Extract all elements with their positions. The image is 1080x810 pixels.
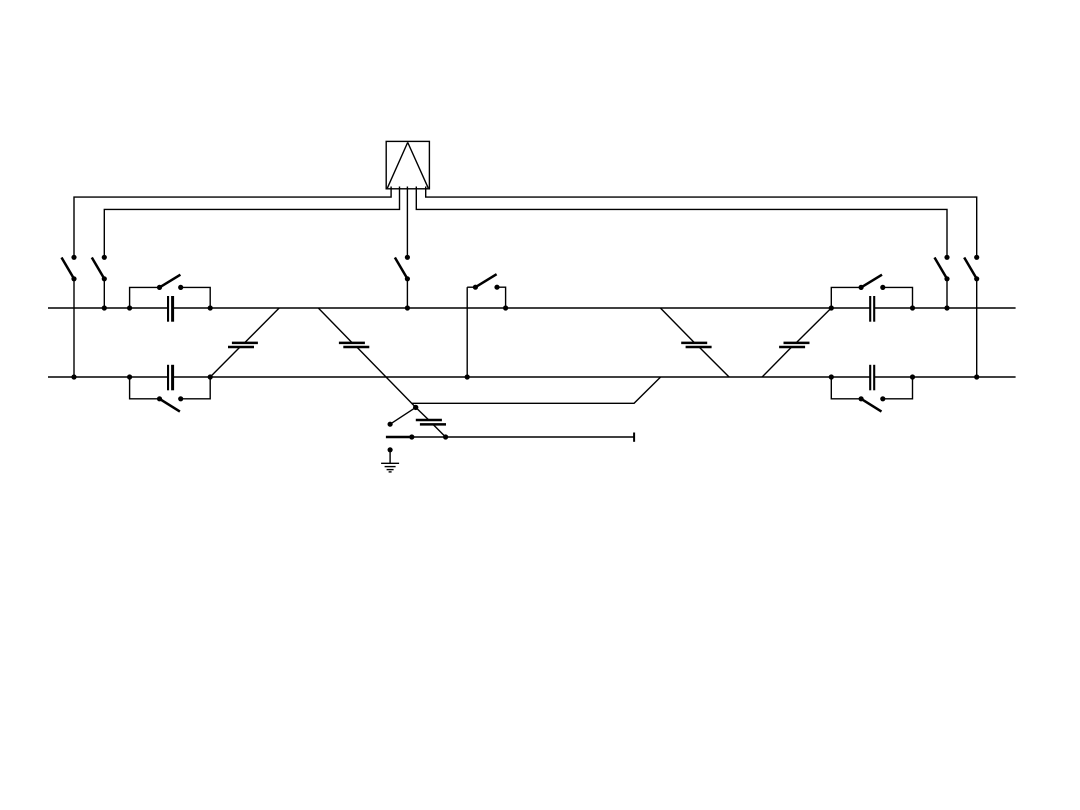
wire pin2 to left inner line y209 (104, 187, 399, 258)
capacitor C6 on diagonal D3 (681, 343, 711, 347)
capacitor C5 on D2 lower part (416, 420, 446, 424)
capacitor C2 lower bus left (168, 365, 173, 391)
bypass switch S8 under C9 (829, 374, 915, 411)
wire S5 to top bus (406, 279, 408, 308)
capacitor C1 top bus left (168, 296, 173, 322)
wire D2 lower part (416, 407, 446, 437)
disconnector S1 outer left (62, 255, 77, 282)
ground (381, 463, 399, 472)
capacitor C3 on diagonal D1 (228, 343, 258, 347)
bypass switch S3 over C1 (127, 275, 213, 311)
terminal tick at end of y437 line (633, 433, 635, 442)
bypass switch S4 under C2 (127, 374, 213, 411)
node D2 end on y437 line (443, 434, 448, 439)
node S9 top bus (944, 305, 949, 310)
earthing switch blade S12 on y437 line (386, 434, 415, 439)
node S10 lower bus (974, 374, 979, 379)
wire S2 to top bus (103, 279, 105, 308)
top bus wire (48, 307, 1016, 309)
wire S9 to top bus (946, 279, 948, 308)
wire ground stem (389, 450, 391, 463)
wire S10 to lower bus (976, 279, 978, 377)
node J1 junction on D2 (413, 405, 418, 410)
ground contact node (388, 447, 393, 452)
bypass switch S7 over C8 (829, 275, 915, 311)
switch arm S11 from junction J1 (388, 407, 416, 426)
wire diagonal D2 upper part (318, 308, 415, 407)
wire pin3 center drop (406, 187, 408, 258)
node S2 top bus (102, 305, 107, 310)
node S5 top bus (405, 305, 410, 310)
disconnector S10 outer right (964, 255, 979, 282)
capacitor C4 on diagonal D2 (339, 343, 369, 347)
switch S6 middle with drop to lower bus (465, 274, 509, 379)
disconnector S2 inner left (92, 255, 107, 282)
capacitor C7 on diagonal D4 (779, 343, 809, 347)
wire diagonal D4 (762, 308, 831, 377)
lower bus wire (48, 376, 1016, 378)
capacitor C8 top bus right (870, 296, 874, 322)
node S1 lower bus (71, 374, 76, 379)
wire pin1 to left outer line y197 (74, 187, 391, 258)
transducer box U1 (386, 141, 429, 188)
capacitor C9 lower bus right (870, 365, 874, 391)
wire pin5 to right outer line y197 (426, 187, 977, 258)
wire tap y403 from D2 to lower bus (412, 377, 661, 403)
wire y437 line (412, 436, 634, 438)
wire diagonal D3 (660, 308, 729, 377)
wire pin4 to right inner line y209 (416, 187, 947, 258)
wire diagonal D1 (210, 308, 279, 377)
disconnector S9 inner right (935, 255, 950, 282)
disconnector S5 center (395, 255, 410, 282)
wire S1 to lower bus (73, 279, 75, 377)
